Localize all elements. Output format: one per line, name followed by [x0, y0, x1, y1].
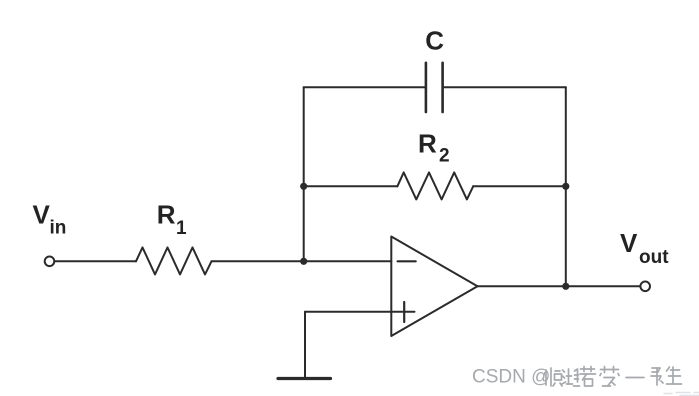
- glyph 2: [562, 369, 580, 386]
- resistor R2: [397, 172, 473, 199]
- glyph 4: [600, 367, 619, 387]
- watermark CJK glyph strokes: [546, 367, 682, 387]
- svg-text:V: V: [620, 228, 638, 258]
- wire: middle rail left segment (node A riser to R2): [304, 185, 398, 187]
- svg-text:V: V: [33, 200, 51, 230]
- svg-text:R: R: [418, 129, 437, 159]
- ground: [278, 377, 331, 380]
- op-amp minus (inverting input mark): [398, 260, 416, 262]
- svg-text:R: R: [157, 200, 176, 230]
- node B (middle rail, left): [300, 183, 307, 190]
- faint partial watermark row (bottom-right corner): [664, 393, 699, 396]
- node A (junction at inverting input): [300, 258, 307, 265]
- svg-text:out: out: [639, 247, 669, 268]
- wire: middle rail right segment (R2 to output node drop): [473, 185, 566, 187]
- input terminal (Vin) open circle: [45, 257, 55, 267]
- op-amp plus (non-inverting input mark, vertical stroke): [403, 302, 405, 322]
- node D (output junction): [562, 283, 569, 290]
- glyph 3: [580, 367, 596, 387]
- glyph 1: [546, 368, 562, 386]
- node C (middle rail, right): [562, 183, 569, 190]
- resistor R1: [136, 247, 212, 274]
- watermark CSDN: [472, 367, 550, 388]
- wire: left vertical riser from node A to top rail: [303, 87, 305, 261]
- wire: top rail right segment from capacitor: [443, 86, 566, 88]
- capacitor C: [426, 63, 443, 112]
- svg-text:2: 2: [439, 146, 450, 167]
- wire: ground rail to non-inverting input (plus horizontal): [305, 311, 415, 313]
- wire: ground drop: [304, 312, 306, 378]
- svg-text:CSDN @: CSDN @: [472, 367, 550, 388]
- op-amp U1: [391, 237, 477, 337]
- svg-text:C: C: [425, 26, 444, 56]
- wire: top rail left segment to capacitor: [304, 86, 426, 88]
- wire: op-amp output to output terminal: [478, 285, 640, 287]
- output terminal (Vout) open circle: [640, 282, 650, 292]
- wire: right vertical drop from top rail to output node: [565, 87, 567, 286]
- glyph 7: [667, 367, 682, 384]
- wire: input terminal to R1: [55, 260, 136, 262]
- wire: R1 to op-amp inverting input (through node A): [212, 260, 392, 262]
- svg-text:in: in: [50, 218, 67, 239]
- glyph 6: [651, 368, 663, 385]
- glyph 5 (一): [626, 377, 644, 379]
- svg-text:1: 1: [176, 218, 187, 239]
